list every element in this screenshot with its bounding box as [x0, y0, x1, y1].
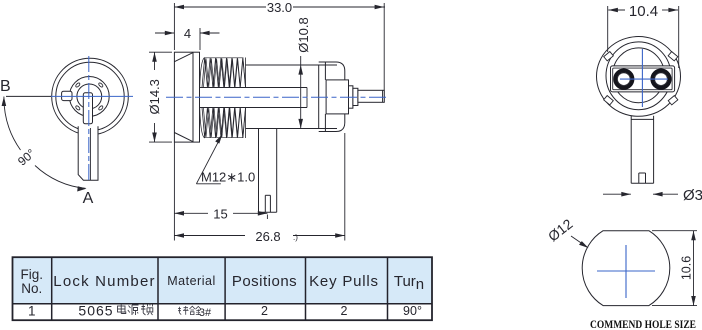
thread M12 bottom [200, 108, 246, 139]
svg-text:Ø10.8: Ø10.8 [296, 17, 311, 52]
svg-text:90°: 90° [403, 304, 422, 318]
svg-text:90°: 90° [15, 146, 38, 169]
svg-text:Material: Material [167, 274, 215, 288]
CJK glyph xin (zinc) [178, 306, 189, 315]
svg-text:4: 4 [184, 26, 191, 41]
front view outer bezel circle [52, 58, 129, 135]
dimension 15 [174, 142, 267, 240]
svg-text:Fig.: Fig. [21, 267, 44, 282]
CJK glyph dian (electric) [118, 304, 126, 314]
rear outer silhouette [597, 37, 681, 117]
terminal right [652, 71, 669, 88]
barrel body [246, 65, 338, 129]
svg-text:Ø12: Ø12 [545, 215, 576, 244]
table header text [21, 267, 425, 296]
side view center line [166, 96, 388, 98]
front view vertical center line [88, 56, 90, 181]
svg-text:M12∗1.0: M12∗1.0 [201, 170, 255, 185]
terminal pin [358, 90, 384, 102]
thread M12 top [200, 58, 246, 88]
svg-text:B: B [0, 78, 11, 95]
svg-text:2: 2 [341, 304, 348, 318]
dimension 33.0 [174, 3, 385, 103]
rear crosshair [620, 78, 668, 80]
svg-text:A: A [83, 190, 94, 207]
rear tab [631, 116, 653, 184]
arc arrow right (at A) [77, 186, 86, 191]
dimension 26.8 [174, 133, 344, 241]
dimension 4 [155, 28, 220, 50]
lock cylinder ring [69, 77, 109, 117]
CJK glyph yuan (source) [128, 305, 139, 315]
svg-text:10.4: 10.4 [629, 3, 658, 20]
datum line B [6, 95, 51, 97]
rear circle 3 [613, 48, 665, 103]
terminal block [611, 66, 675, 92]
terminal bushing steps [349, 86, 358, 108]
CJK glyph he (alloy-he) [190, 306, 196, 314]
lock core lines [200, 88, 308, 108]
flange bezel [174, 52, 199, 142]
svg-text:15: 15 [213, 206, 227, 221]
table header fill [13, 257, 433, 304]
front view horizontal center line [51, 95, 134, 97]
dimension dia 3 [603, 193, 678, 195]
svg-text:Lock Number: Lock Number [53, 273, 155, 290]
svg-text:No.: No. [21, 281, 42, 296]
CJK glyph suo (lock) [141, 304, 153, 316]
rear cap [319, 62, 345, 132]
table grid [13, 257, 433, 320]
hanging terminal tab (front view) [78, 126, 98, 180]
svg-text:.): .) [293, 233, 298, 242]
svg-text:26.8: 26.8 [255, 229, 280, 244]
tab inner edge [89, 128, 91, 180]
label M12*1.0 leader [196, 134, 222, 184]
hole circle with flats [582, 231, 670, 306]
svg-text:COMMEND HOLE SIZE: COMMEND HOLE SIZE [590, 317, 696, 330]
dimension 10.6 [652, 231, 697, 306]
dimension 10.4 [608, 6, 679, 68]
terminal left [615, 71, 632, 88]
svg-text:2: 2 [261, 304, 268, 318]
svg-text:Positions: Positions [232, 273, 297, 290]
vertical keyway slot [83, 93, 92, 124]
svg-text:Ø3: Ø3 [683, 187, 702, 204]
svg-text:5065: 5065 [78, 303, 113, 319]
left keyway tab [62, 91, 72, 100]
svg-text:33.0: 33.0 [267, 0, 292, 15]
dimension dia 10.8 [300, 56, 302, 129]
pin dots on cylinder face [75, 82, 104, 110]
label dia 12 leader [571, 236, 587, 247]
svg-text:10.6: 10.6 [679, 256, 693, 280]
table data text [28, 303, 422, 320]
svg-text:Ø14.3: Ø14.3 [147, 79, 162, 114]
rear circle 2 [606, 42, 671, 110]
CJK glyph jin (gold) [196, 306, 202, 314]
dimension dia 14.3 [149, 52, 172, 142]
hole crosshair [597, 270, 655, 272]
90 degree rotation arc [4, 97, 21, 151]
terminal tab (side view) [259, 129, 277, 213]
anti-rotation lugs [604, 52, 678, 105]
svg-text:1: 1 [28, 304, 36, 319]
arc arrow up (at B) [2, 97, 7, 107]
switch block [326, 80, 348, 114]
svg-text:Key Pulls: Key Pulls [309, 273, 379, 290]
